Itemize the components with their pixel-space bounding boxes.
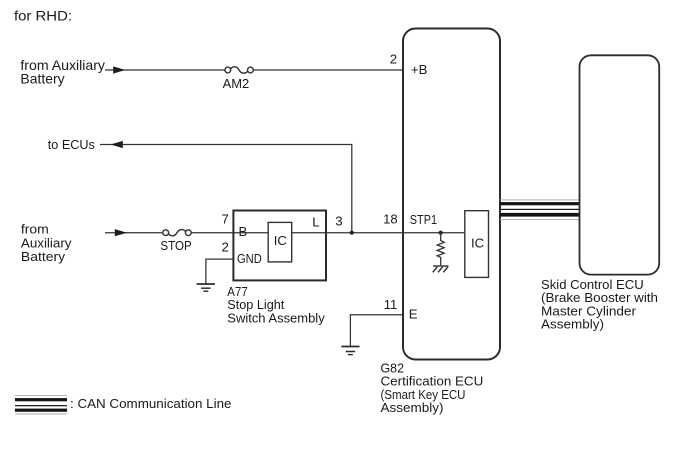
fuse AM2 (225, 66, 253, 74)
node N1: junction of to-ECUs branch with STP1 wire (350, 231, 354, 235)
svg-text:11: 11 (384, 297, 398, 312)
label G82 Certification ECU (Smart Key ECU Assembly) (381, 360, 484, 415)
svg-text:Battery: Battery (20, 71, 64, 87)
svg-text:L: L (312, 215, 319, 230)
svg-text:IC: IC (274, 233, 288, 248)
svg-text:: CAN Communication Line: : CAN Communication Line (70, 396, 231, 411)
wire W1: auxiliary battery feed to +B pin 2 (105, 69, 403, 71)
svg-text:2: 2 (390, 51, 397, 66)
switch assembly A77 box (233, 211, 326, 281)
svg-text:to ECUs: to ECUs (48, 137, 95, 152)
ground G1 (A77 GND) (197, 284, 215, 291)
wire W4: A77 GND pin 2 to ground (206, 259, 234, 284)
wire W5: E pin 11 to ground (350, 315, 403, 347)
svg-text:+B: +B (411, 62, 428, 77)
svg-text:STOP: STOP (160, 238, 192, 253)
wire W2: to ECUs branch (100, 145, 352, 233)
arrow A1 on wire W1 (113, 66, 125, 73)
svg-text:for RHD:: for RHD: (14, 9, 72, 25)
label A77 Stop Light Switch Assembly (227, 284, 325, 326)
IC U3 inside G82 (465, 211, 489, 278)
wire W3a: B pin to IC inside A77 (233, 232, 268, 234)
CAN communication bus between G82 and skid control ECU (500, 199, 580, 220)
IC U2 inside A77 (268, 222, 292, 262)
chassis ground G2 (below resistor R1) (433, 266, 449, 272)
fuse STOP (163, 229, 191, 237)
skid control ECU box (580, 55, 660, 274)
arrow A3 on wire W3 (115, 229, 127, 236)
svg-text:AM2: AM2 (223, 76, 250, 91)
svg-text:18: 18 (383, 212, 398, 227)
resistor R1 (pull-down inside G82) (437, 233, 444, 266)
node N2: resistor tap junction inside G82 (439, 231, 443, 235)
svg-text:from: from (21, 222, 49, 237)
label Skid Control ECU (Brake Booster with Master Cylinder Assembly) (541, 277, 658, 332)
svg-text:3: 3 (335, 214, 342, 229)
ECU G82 box (403, 29, 500, 360)
arrow A2 on wire W2 (pointing left) (111, 141, 123, 148)
svg-text:Battery: Battery (21, 249, 66, 264)
svg-text:IC: IC (471, 236, 485, 251)
svg-text:B: B (239, 224, 248, 239)
legend CAN communication line symbol (15, 395, 67, 414)
label "from Auxiliary Battery" (stop light feed) (21, 222, 72, 265)
label "from Auxiliary Battery" (top feed) (20, 57, 105, 87)
svg-text:7: 7 (222, 211, 229, 226)
svg-text:GND: GND (237, 251, 262, 266)
svg-text:Switch Assembly: Switch Assembly (227, 310, 325, 325)
svg-text:STP1: STP1 (410, 212, 437, 227)
wire W3: stop light switch feed (105, 232, 233, 234)
svg-text:2: 2 (222, 239, 229, 254)
svg-text:Assembly): Assembly) (541, 317, 604, 332)
svg-text:E: E (409, 306, 418, 321)
ground G3 (G82 E pin) (341, 347, 359, 355)
svg-text:Assembly): Assembly) (381, 400, 444, 415)
wire W3b: IC output through pin 3 to STP1 and IC in G82 (292, 232, 465, 234)
